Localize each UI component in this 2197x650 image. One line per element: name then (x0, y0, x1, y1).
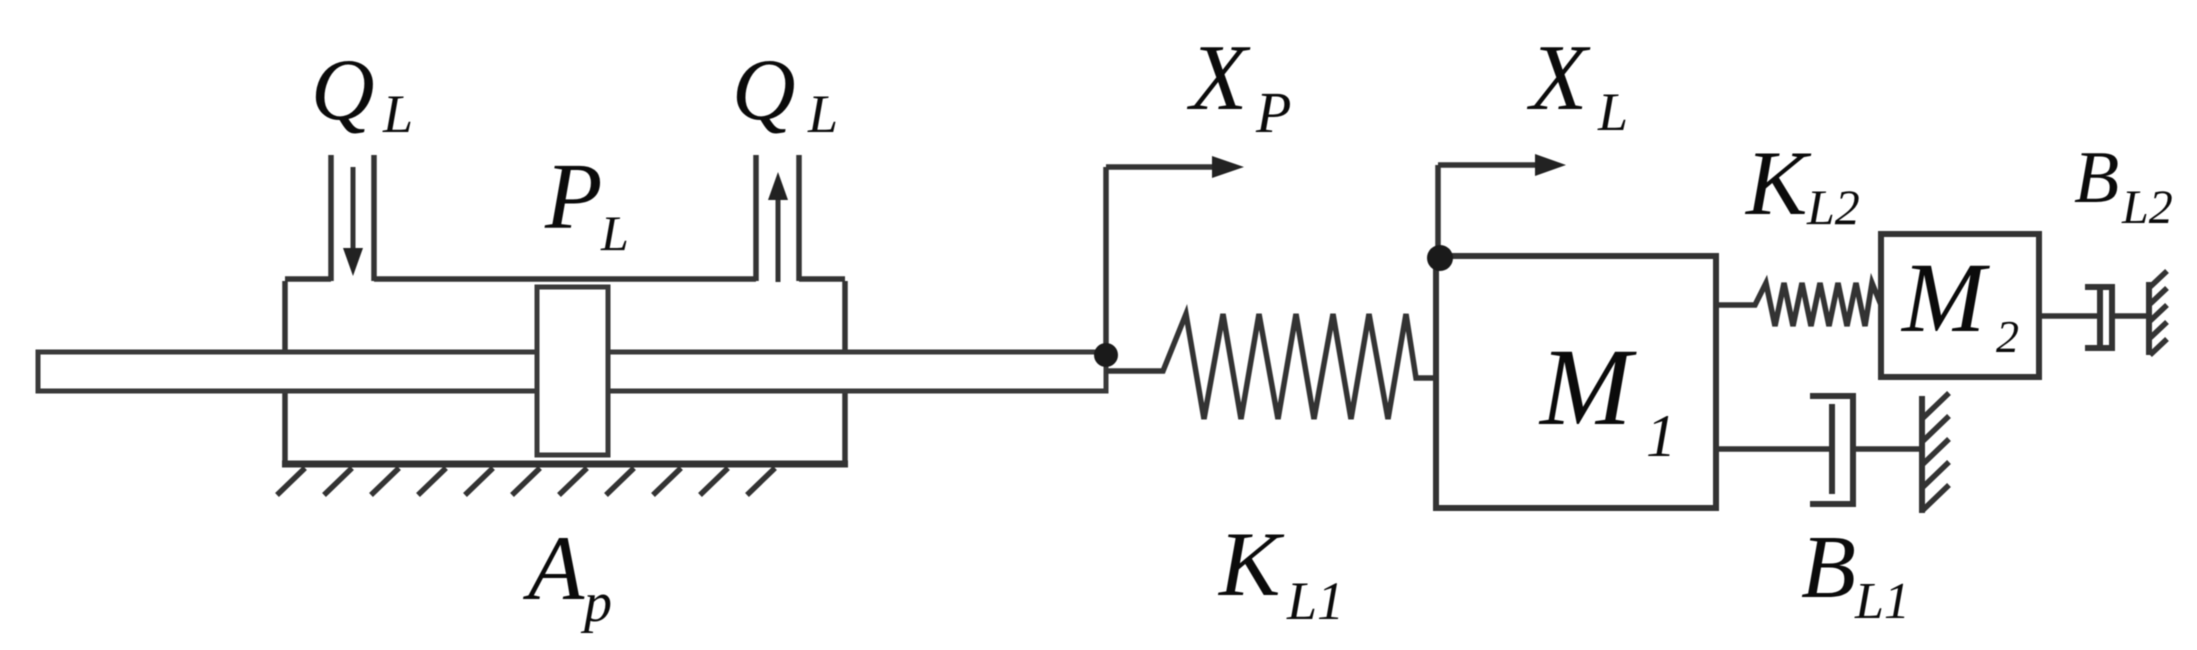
damper BL2 rod to wall (2112, 313, 2147, 319)
svg-text:X: X (1186, 26, 1251, 130)
spring KL1 (1106, 314, 1436, 419)
damper BL1 cup (1810, 396, 1853, 504)
label PL (544, 145, 629, 261)
arrow X_L (1438, 154, 1566, 176)
damper BL2 rod from M2 (2039, 313, 2098, 319)
svg-text:M: M (1538, 326, 1637, 448)
svg-text:Q: Q (311, 42, 375, 139)
cylinder body (282, 279, 848, 464)
wall BL1 hatching (1923, 393, 1949, 510)
label QL left (311, 42, 413, 144)
svg-text:L1: L1 (1854, 573, 1910, 630)
svg-text:L: L (382, 84, 413, 144)
damper BL1 piston plate (1829, 404, 1835, 494)
svg-text:K: K (1217, 513, 1285, 615)
svg-text:Q: Q (732, 42, 796, 139)
svg-text:1: 1 (1646, 403, 1676, 469)
svg-text:L1: L1 (1286, 571, 1344, 631)
wire: X_L pickoff vertical (1435, 165, 1441, 256)
damper BL2 cup (2085, 287, 2112, 348)
svg-text:B: B (1801, 518, 1856, 617)
svg-text:M: M (1900, 242, 1990, 353)
svg-text:L: L (600, 205, 629, 261)
svg-text:B: B (2074, 137, 2119, 219)
right port tube (756, 155, 799, 281)
right flow arrow (up) (768, 172, 788, 282)
node at M1 top-left (1427, 245, 1453, 271)
svg-text:A: A (522, 517, 585, 619)
wire: X_P pickoff vertical (1103, 167, 1109, 352)
piston (537, 287, 608, 455)
label M1 (1538, 326, 1676, 469)
label BL1 (1801, 518, 1910, 630)
wall BL2 (2146, 282, 2152, 355)
svg-text:L: L (1597, 82, 1628, 142)
svg-text:L2: L2 (2121, 181, 2173, 234)
piston rod (38, 352, 1106, 391)
left flow arrow (down) (343, 167, 363, 276)
svg-text:L: L (807, 84, 838, 144)
label BL2 (2074, 137, 2173, 234)
node on rod end (1094, 343, 1118, 367)
svg-text:p: p (580, 572, 612, 634)
label XP (1186, 26, 1291, 145)
svg-text:X: X (1526, 26, 1591, 130)
label KL2 (1744, 132, 1860, 235)
damper BL1 rod from M1 (1716, 446, 1830, 452)
label QL right (732, 42, 838, 144)
svg-text:P: P (544, 145, 602, 249)
wall BL1 (1919, 396, 1925, 513)
svg-text:2: 2 (1996, 311, 2019, 362)
label Ap (522, 517, 612, 634)
damper BL2 piston plate (2097, 289, 2103, 345)
label XL (1526, 26, 1628, 142)
left port tube (331, 155, 374, 281)
svg-text:P: P (1255, 80, 1291, 145)
spring KL2 (1716, 283, 1881, 326)
svg-text:K: K (1744, 132, 1812, 234)
ground hatching under cylinder (277, 468, 775, 495)
mass M1 box (1436, 256, 1716, 508)
label M2 (1900, 242, 2019, 362)
arrow X_P (1106, 156, 1244, 178)
damper BL1 rod to wall (1853, 446, 1921, 452)
svg-text:L2: L2 (1806, 179, 1860, 235)
wall BL2 hatching (2150, 271, 2167, 355)
mass M2 box (1881, 234, 2039, 377)
label KL1 (1217, 513, 1344, 631)
